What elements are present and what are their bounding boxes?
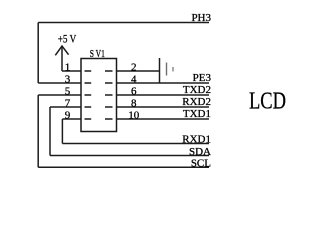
- connector pin7 stub: [85, 106, 92, 108]
- connector pin2 stub: [105, 70, 113, 72]
- connector pin10 stub: [105, 118, 113, 120]
- svg-text:S V1: S V1: [90, 48, 105, 60]
- svg-text:TXD2: TXD2: [183, 84, 211, 96]
- connector pin1 stub: [85, 70, 92, 72]
- svg-text:RXD1: RXD1: [182, 134, 211, 146]
- capacitor C1 plate right: [172, 67, 174, 72]
- connector pin8 stub: [105, 106, 113, 108]
- wire PH3 left vertical: [37, 23, 39, 84]
- connector pin9 stub: [85, 118, 92, 120]
- svg-text:3: 3: [65, 73, 71, 85]
- connector pin4 stub: [105, 82, 113, 84]
- wire +5V stem: [61, 46, 63, 71]
- svg-text:8: 8: [131, 97, 137, 109]
- svg-text:LCD: LCD: [249, 88, 286, 114]
- wire PH3 top horizontal: [38, 22, 209, 24]
- svg-text:PH3: PH3: [191, 12, 211, 24]
- wire SDA horizontal: [50, 155, 209, 157]
- wire pin1 row: [62, 70, 81, 72]
- wire pin9 row: [62, 118, 81, 120]
- svg-text:4: 4: [131, 73, 137, 85]
- svg-text:6: 6: [131, 85, 137, 97]
- svg-text:10: 10: [128, 109, 140, 121]
- wire RXD2 line: [117, 106, 210, 108]
- connector J1 body: [81, 59, 117, 132]
- svg-text:9: 9: [65, 109, 71, 121]
- connector pin3 stub: [85, 82, 92, 84]
- wire RXD1 horizontal: [62, 143, 209, 145]
- svg-text:SDA: SDA: [189, 146, 211, 158]
- wire pin7 row: [50, 106, 81, 108]
- connector pin5 stub: [85, 94, 92, 96]
- svg-text:1: 1: [65, 61, 71, 73]
- wire RXD1 vertical: [61, 119, 63, 144]
- svg-text:PE3: PE3: [193, 72, 212, 84]
- connector pin6 stub: [105, 94, 113, 96]
- svg-text:+5 V: +5 V: [58, 32, 77, 46]
- wire SCL vertical: [37, 95, 39, 167]
- wire pin3 row: [38, 82, 81, 84]
- wire SCL horizontal: [38, 166, 209, 168]
- capacitor C1 plate left: [166, 63, 168, 76]
- power +5V arrow head: [55, 46, 68, 55]
- svg-text:2: 2: [131, 61, 137, 73]
- wire PE3 line: [117, 82, 210, 84]
- svg-text:TXD1: TXD1: [183, 108, 211, 120]
- wire SDA vertical: [49, 107, 51, 156]
- wire pin2 stub: [117, 70, 160, 72]
- wire TXD1 line: [117, 118, 210, 120]
- svg-text:RXD2: RXD2: [182, 96, 211, 108]
- svg-text:SCL: SCL: [191, 158, 211, 170]
- svg-text:7: 7: [65, 97, 71, 109]
- svg-text:5: 5: [65, 85, 71, 97]
- wire TXD2 line: [117, 94, 210, 96]
- capacitor C1 lead vertical: [159, 58, 161, 83]
- wire pin5 row: [38, 94, 81, 96]
